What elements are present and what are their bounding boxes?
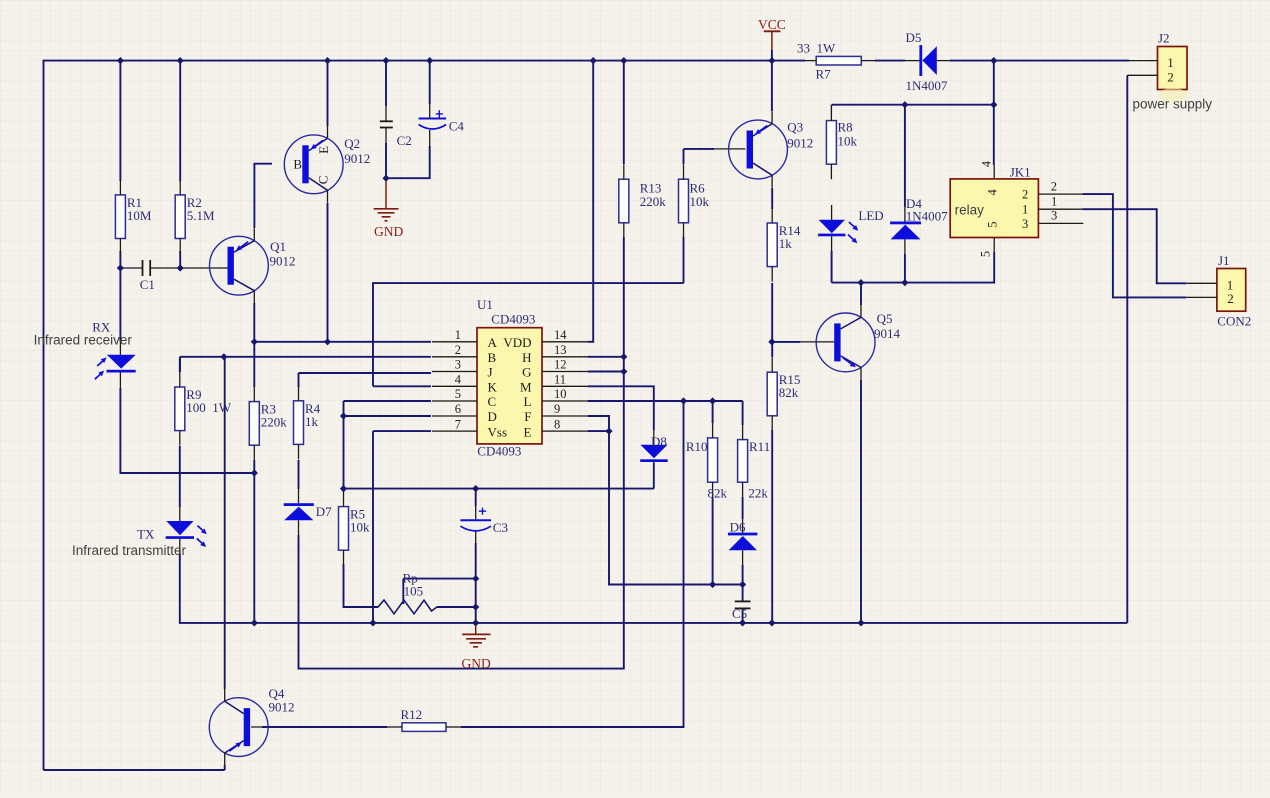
transistor Q4 9012 bbox=[209, 686, 294, 765]
svg-text:1: 1 bbox=[1167, 55, 1174, 70]
wire pin1 node down to R3 bbox=[253, 342, 255, 387]
wire Rp right end to C3 net bbox=[437, 606, 476, 608]
svg-text:8: 8 bbox=[554, 417, 560, 431]
svg-text:1: 1 bbox=[455, 328, 461, 342]
svg-text:5: 5 bbox=[979, 251, 993, 257]
wire relay pin1 to J1 pin1 bbox=[1082, 209, 1186, 283]
svg-text:Q2: Q2 bbox=[344, 136, 360, 151]
resistor R1 bbox=[115, 180, 151, 254]
svg-text:B: B bbox=[293, 157, 302, 172]
wire VCC bus to C4 bbox=[429, 61, 431, 104]
wire R9 top segment bbox=[179, 357, 181, 372]
svg-text:M: M bbox=[520, 380, 532, 395]
svg-text:LED: LED bbox=[858, 208, 883, 223]
junction pin5/pin6 bbox=[340, 412, 347, 419]
capacitor C5 bbox=[732, 601, 751, 621]
transistor Q1 9012 bbox=[210, 228, 296, 303]
wire pin10 corner down to R11 bbox=[742, 401, 744, 425]
resistor R7 bbox=[797, 41, 875, 82]
wire net pin1: to U1 pin 1 bbox=[254, 341, 431, 343]
artifact yellow glow under J2 bbox=[1159, 88, 1187, 102]
wire Rp wiper to C3 net bbox=[403, 578, 475, 580]
wire R9 bottom to TX anode bbox=[179, 446, 181, 507]
svg-text:1k: 1k bbox=[779, 236, 793, 251]
junction rail/Q5 collector bbox=[857, 279, 864, 286]
svg-text:C: C bbox=[488, 394, 497, 409]
wire Q4 base black lead bbox=[251, 726, 387, 728]
svg-text:10M: 10M bbox=[127, 208, 152, 223]
svg-text:J: J bbox=[488, 365, 493, 380]
svg-text:2: 2 bbox=[1227, 291, 1234, 306]
diode D5 1N4007 bbox=[905, 30, 950, 93]
svg-text:10k: 10k bbox=[690, 194, 710, 209]
svg-text:CD4093: CD4093 bbox=[491, 312, 535, 327]
junction pin12 riser bbox=[620, 368, 627, 375]
wire VCC to Q3 emitter bbox=[771, 61, 773, 111]
junction VCC/pin14 bbox=[590, 57, 597, 64]
wire C3 minus down to GND bus bbox=[475, 543, 477, 623]
junction pin10/R12 riser bbox=[680, 397, 687, 404]
wire D6 anode to C5 bbox=[742, 565, 744, 601]
svg-text:Q5: Q5 bbox=[877, 311, 893, 326]
junction GND bus/Q5e bbox=[857, 619, 864, 626]
resistor Rp trimmer 105 bbox=[344, 571, 441, 614]
svg-text:C2: C2 bbox=[397, 133, 412, 148]
svg-text:5: 5 bbox=[455, 387, 461, 401]
wire R7 to D5 bbox=[875, 60, 905, 62]
junction VCC stem bbox=[768, 57, 775, 64]
svg-text:22k: 22k bbox=[748, 486, 768, 501]
svg-text:C1: C1 bbox=[140, 277, 155, 292]
transistor Q5 9014 bbox=[816, 305, 900, 380]
wire D4 bottom to rail bbox=[904, 254, 906, 283]
junction R5/C3 rail left bbox=[340, 485, 347, 492]
svg-text:9012: 9012 bbox=[787, 136, 813, 151]
wire VCC bus left segment and left border bbox=[44, 61, 806, 770]
wire Q5 emitter down to GND bus bbox=[860, 380, 862, 623]
svg-text:B: B bbox=[488, 350, 497, 365]
wire Q3 base horizontal bbox=[684, 148, 715, 150]
svg-text:C5: C5 bbox=[732, 606, 747, 621]
svg-text:U1: U1 bbox=[477, 297, 493, 312]
junction GND bus/C3 bbox=[472, 619, 479, 626]
wire pin5/6 riser down to R5 bbox=[343, 401, 345, 492]
svg-text:220k: 220k bbox=[261, 415, 288, 430]
wire VCC bus to R2 bbox=[179, 61, 181, 181]
junction VCC/R1 bbox=[117, 57, 124, 64]
wire VCC bus to Q2 emitter bbox=[327, 61, 329, 126]
resistor R4 bbox=[294, 386, 321, 460]
svg-text:J2: J2 bbox=[1158, 31, 1170, 46]
wire C1 right lead to Q1 base bbox=[150, 267, 228, 269]
junction C2/C4/GND bbox=[382, 175, 389, 182]
svg-text:R11: R11 bbox=[749, 439, 770, 454]
svg-text:C: C bbox=[316, 176, 331, 185]
svg-text:10k: 10k bbox=[350, 520, 370, 535]
svg-text:C4: C4 bbox=[449, 119, 465, 134]
junction VCC/R13 bbox=[620, 57, 627, 64]
transistor Q3 9012 bbox=[729, 111, 814, 188]
junction pin2/Q4 collector bbox=[220, 353, 227, 360]
wire Q3 base black lead bbox=[714, 148, 745, 150]
junction R2/C1/Q1 base bbox=[177, 264, 184, 271]
wire Q3 collector to R14 bbox=[771, 188, 773, 209]
ground GND symbol near C3 bbox=[462, 623, 491, 671]
svg-text:E: E bbox=[524, 424, 532, 439]
wire corner to R8 bbox=[831, 105, 833, 106]
junction C3 top rail bbox=[472, 485, 479, 492]
junction VCC/C4 bbox=[426, 57, 433, 64]
svg-text:D8: D8 bbox=[651, 434, 667, 449]
diode D6 bbox=[728, 519, 757, 565]
svg-text:JK1: JK1 bbox=[1010, 164, 1031, 179]
svg-text:Vss: Vss bbox=[488, 424, 508, 439]
wire pin8 horizontal bbox=[588, 430, 609, 432]
junction GND bus/R3 bbox=[251, 619, 258, 626]
wire RX cathode to R3 node bbox=[120, 388, 254, 473]
wire Q3 base corner down to R6 bbox=[683, 149, 685, 164]
svg-text:CD4093: CD4093 bbox=[477, 444, 521, 459]
svg-text:105: 105 bbox=[404, 584, 424, 599]
svg-text:1k: 1k bbox=[305, 414, 319, 429]
junction Q5 base/R14/R15 bbox=[768, 338, 775, 345]
svg-text:7: 7 bbox=[455, 417, 461, 431]
wire net pin10 to R10/R11 tops bbox=[588, 400, 743, 402]
LED TX infrared transmitter bbox=[137, 506, 207, 553]
junction R8/D4 top bbox=[901, 101, 908, 108]
wire net R5/C3/D8 cathode rail bbox=[344, 488, 654, 490]
svg-text:1: 1 bbox=[1022, 203, 1028, 217]
wire pin10 node down to R12 right lead bbox=[461, 401, 684, 727]
connector J2 power supply bbox=[1127, 31, 1212, 112]
svg-text:13: 13 bbox=[554, 343, 567, 357]
svg-text:10k: 10k bbox=[838, 134, 858, 149]
svg-text:1N4007: 1N4007 bbox=[906, 78, 948, 93]
connector J1 CON2 bbox=[1186, 253, 1251, 328]
svg-text:R12: R12 bbox=[401, 707, 423, 722]
wire R9 top corner bbox=[179, 357, 181, 372]
LED indicator bbox=[818, 205, 884, 251]
wire pin13 to riser bbox=[588, 356, 624, 358]
wire J2 pin2 ground riser bbox=[1126, 75, 1128, 623]
svg-text:GND: GND bbox=[462, 656, 491, 671]
wire pin8/9 down to R10/R11 bottom rail bbox=[609, 431, 743, 584]
svg-text:82k: 82k bbox=[779, 385, 799, 400]
wire net pin14 VDD riser to VCC bus bbox=[588, 61, 594, 342]
wire pin4 horizontal to U1 bbox=[373, 385, 431, 387]
svg-text:100 1W: 100 1W bbox=[186, 400, 232, 415]
svg-text:relay: relay bbox=[955, 203, 985, 218]
svg-text:4: 4 bbox=[455, 373, 462, 387]
svg-text:R10: R10 bbox=[686, 439, 708, 454]
svg-text:CON2: CON2 bbox=[1217, 313, 1251, 328]
wire pin4 riser to R6 bottom bbox=[683, 237, 685, 283]
wire net pin4: U1 pin 4 up and over to R6 bbox=[373, 283, 684, 386]
wire pin7 riser to GND bus bbox=[372, 431, 374, 623]
svg-text:12: 12 bbox=[554, 358, 567, 372]
resistor R13 bbox=[619, 164, 666, 238]
IC U1 CD4093 bbox=[432, 297, 588, 459]
svg-text:F: F bbox=[524, 409, 531, 424]
svg-text:6: 6 bbox=[455, 402, 461, 416]
resistor R12 bbox=[387, 707, 461, 731]
resistor R14 bbox=[767, 208, 801, 282]
wire VCC bus to R1 bbox=[119, 61, 121, 181]
wire D7 anode rail to R13/pin12 riser bbox=[299, 535, 624, 669]
resistor R10 bbox=[686, 423, 728, 501]
junction rail/D6 bbox=[739, 581, 746, 588]
svg-text:14: 14 bbox=[554, 328, 567, 342]
resistor R9 bbox=[175, 372, 232, 446]
svg-text:VDD: VDD bbox=[503, 335, 531, 350]
svg-text:9: 9 bbox=[554, 402, 560, 416]
svg-text:4: 4 bbox=[986, 189, 1000, 196]
wire GND bus bottom bbox=[180, 553, 1128, 623]
wire D8 cathode down to rail bbox=[653, 463, 655, 489]
svg-text:4: 4 bbox=[980, 160, 994, 167]
wire VCC bus to C2 bbox=[385, 61, 387, 106]
wire R4 bottom to D7 bbox=[298, 460, 300, 489]
wire C1 left lead bbox=[120, 267, 142, 269]
svg-text:33 1W: 33 1W bbox=[797, 41, 836, 56]
photodiode RX infrared receiver bbox=[92, 320, 136, 389]
svg-text:H: H bbox=[522, 350, 531, 365]
svg-text:3: 3 bbox=[455, 358, 461, 372]
junction relay coil top bbox=[990, 101, 997, 108]
junction pin1/Q2 collector bbox=[324, 338, 331, 345]
diode D4 1N4007 bbox=[890, 196, 948, 254]
capacitor C3 electrolytic bbox=[460, 506, 508, 543]
wire net pin9 over and down to pin8 bbox=[588, 416, 609, 431]
junction VCC/C2 bbox=[382, 57, 389, 64]
junction GND bus/R15 bbox=[768, 619, 775, 626]
wire bottom left rail to Q4 emitter bbox=[44, 769, 225, 771]
junction rail/D4 bbox=[901, 279, 908, 286]
wire Rp wiper riser bbox=[402, 579, 404, 604]
wire R13 bottom through pins 13/12 down to D7 rail bbox=[623, 237, 625, 654]
junction Rp/C3 bbox=[472, 603, 479, 610]
wire Q4 collector riser bbox=[224, 357, 226, 689]
svg-text:10: 10 bbox=[554, 387, 567, 401]
resistor R2 bbox=[175, 180, 215, 254]
svg-text:A: A bbox=[488, 335, 498, 350]
wire Q5 collector up to LED/D4 rail bbox=[860, 283, 862, 305]
wire D5 output down to relay coil pin 4 bbox=[993, 61, 995, 165]
svg-text:TX: TX bbox=[137, 527, 155, 542]
svg-text:220k: 220k bbox=[640, 194, 667, 209]
svg-text:5: 5 bbox=[986, 222, 1000, 228]
svg-text:Q1: Q1 bbox=[270, 239, 286, 254]
junction RX/R3 bbox=[251, 469, 258, 476]
svg-text:D: D bbox=[488, 409, 497, 424]
wire Q2 collector down to pin1 net bbox=[327, 203, 329, 342]
resistor R11 bbox=[738, 425, 771, 501]
wire R14 to R15 through Q5 base node bbox=[771, 283, 773, 357]
wire pin12 to riser bbox=[588, 371, 624, 373]
wire relay pin2 to J1 pin2 bbox=[1082, 194, 1186, 297]
svg-text:J1: J1 bbox=[1218, 253, 1230, 268]
svg-text:9012: 9012 bbox=[344, 151, 370, 166]
svg-text:D5: D5 bbox=[906, 30, 922, 45]
capacitor C1 bbox=[140, 260, 155, 292]
svg-text:C3: C3 bbox=[493, 520, 508, 535]
svg-text:2: 2 bbox=[1167, 70, 1174, 85]
junction R1/C1 bbox=[117, 264, 124, 271]
wire R15 bottom to GND bus bbox=[771, 430, 773, 623]
junction R10 bottom rail bbox=[709, 581, 716, 588]
capacitor C2 bbox=[380, 106, 412, 148]
wire D4 top riser bbox=[904, 105, 906, 207]
wire R10 bottom to rail bbox=[712, 497, 714, 585]
svg-text:2: 2 bbox=[1022, 188, 1028, 202]
junction wiper/C3 bbox=[472, 575, 479, 582]
relay JK1 bbox=[950, 160, 1083, 257]
wire Q1 emitter up to Q2 base bbox=[254, 164, 272, 228]
svg-text:D6: D6 bbox=[730, 520, 746, 535]
junction pin10/R10 bbox=[709, 397, 716, 404]
svg-text:R7: R7 bbox=[816, 67, 832, 82]
svg-text:E: E bbox=[316, 146, 331, 154]
wire D5 to J2 pin 1 bbox=[950, 60, 1129, 62]
resistor R15 bbox=[767, 357, 800, 431]
svg-text:K: K bbox=[488, 380, 498, 395]
resistor R8 bbox=[826, 106, 857, 180]
wire R2 to C1 node bbox=[179, 251, 181, 268]
resistor R6 bbox=[679, 164, 710, 238]
svg-text:11: 11 bbox=[554, 373, 566, 387]
junction pin8/pin9 bbox=[605, 428, 612, 435]
junction VCC/Q2e bbox=[324, 57, 331, 64]
wire pin6 horizontal bbox=[344, 415, 432, 417]
capacitor C4 electrolytic bbox=[419, 104, 465, 146]
wire VCC stem lower bbox=[771, 50, 773, 61]
wire net R8 top / D4 / relay coil top bbox=[832, 104, 994, 106]
wire pin10 node down to R10 bbox=[712, 401, 714, 423]
svg-text:3: 3 bbox=[1022, 217, 1028, 231]
junction pin13 riser bbox=[620, 353, 627, 360]
wire VCC bus to R13 bbox=[623, 61, 625, 164]
svg-text:R8: R8 bbox=[838, 120, 853, 135]
junction VCC/R2 bbox=[177, 57, 184, 64]
wire net pin11 to D8 bbox=[588, 386, 654, 430]
svg-text:9012: 9012 bbox=[270, 254, 296, 269]
svg-text:9014: 9014 bbox=[874, 326, 901, 341]
junction pin1/R3 bbox=[251, 338, 258, 345]
svg-text:1: 1 bbox=[1051, 195, 1057, 209]
junction GND bus/C5 bbox=[739, 619, 746, 626]
svg-text:VCC: VCC bbox=[758, 17, 786, 32]
junction GND bus/pin7 bbox=[369, 619, 376, 626]
svg-text:G: G bbox=[522, 365, 531, 380]
svg-text:Infrared receiver: Infrared receiver bbox=[34, 332, 133, 347]
svg-text:1N4007: 1N4007 bbox=[906, 208, 948, 223]
wire R3 bottom to GND bus bbox=[253, 460, 255, 623]
svg-text:2: 2 bbox=[455, 343, 461, 357]
svg-text:Q3: Q3 bbox=[787, 120, 803, 135]
wire LED/D4/Q5/relay pin5 bottom rail bbox=[832, 252, 995, 283]
wire Q1 collector down to pin1 net bbox=[253, 303, 255, 342]
wire Q4 emitter riser bbox=[224, 765, 226, 770]
wire net pin3: R4 to U1 pin 3 bbox=[299, 372, 432, 374]
svg-text:GND: GND bbox=[374, 224, 403, 239]
power VCC symbol bbox=[758, 17, 786, 50]
resistor R5 bbox=[339, 492, 371, 566]
wire pin3 corner down to R4 bbox=[298, 373, 300, 387]
wire R1 to RX anode bbox=[119, 251, 121, 341]
wire Q5 base black lead bbox=[800, 341, 834, 343]
wire net pin7 horizontal bbox=[373, 430, 431, 432]
diode D7 bbox=[284, 489, 332, 535]
wire rail down to C3 bbox=[475, 489, 477, 506]
svg-text:3: 3 bbox=[1051, 209, 1057, 223]
wire Q5 base horizontal bbox=[772, 341, 800, 343]
transistor Q2 9012 bbox=[284, 126, 370, 203]
svg-text:82k: 82k bbox=[708, 486, 728, 501]
wire Q4 base to R12 navy segment bbox=[262, 726, 387, 728]
resistor R3 bbox=[249, 387, 287, 461]
svg-text:1: 1 bbox=[1227, 277, 1234, 292]
svg-text:9012: 9012 bbox=[269, 700, 295, 715]
wire C4 minus to ground node bbox=[386, 146, 430, 178]
svg-text:D7: D7 bbox=[316, 504, 332, 519]
svg-text:5.1M: 5.1M bbox=[187, 208, 215, 223]
junction D5 out bbox=[990, 57, 997, 64]
wire C2 to ground node bbox=[385, 143, 387, 178]
wire LED cathode down to rail bbox=[831, 251, 833, 283]
wire net pin2: R9/Q4 collector to U1 pin 2 bbox=[180, 356, 431, 358]
svg-text:Infrared transmitter: Infrared transmitter bbox=[72, 543, 187, 558]
wire R11 bottom to D6 bbox=[742, 497, 744, 519]
wire net pin5 horizontal bbox=[344, 400, 432, 402]
wire R5 bottom to Rp left end bbox=[344, 564, 379, 607]
diode D8 bbox=[640, 430, 668, 463]
svg-text:2: 2 bbox=[1051, 180, 1057, 194]
ground GND symbol near C2 bbox=[374, 178, 404, 239]
svg-text:L: L bbox=[524, 394, 532, 409]
wire C5 to GND bus bbox=[742, 609, 744, 623]
